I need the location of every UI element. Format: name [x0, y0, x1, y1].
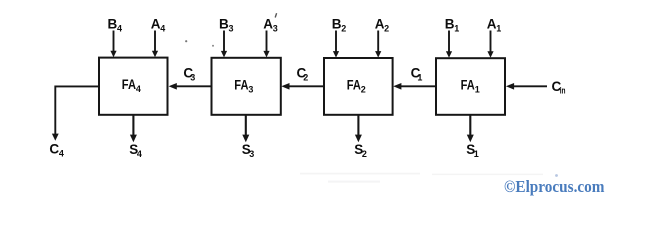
svg-text:FA: FA — [347, 78, 361, 93]
carry-out C4 wire with corner and arrow — [49, 86, 99, 158]
svg-text:2: 2 — [361, 85, 366, 95]
input B1 label and wire — [445, 17, 460, 58]
input A2 label and wire — [375, 17, 389, 58]
input B3 label and wire — [219, 17, 234, 58]
svg-text:4: 4 — [137, 149, 142, 159]
carry-in Cin wire with arrow into FA1 — [506, 79, 566, 96]
svg-text:B: B — [108, 17, 118, 32]
full adder FA3 — [212, 58, 281, 115]
svg-text:in: in — [560, 86, 566, 96]
input A4 label and wire — [151, 17, 165, 58]
carry wire C3 with arrow into FA4 — [169, 66, 212, 90]
svg-text:©Elprocus.com: ©Elprocus.com — [504, 177, 605, 196]
sum output S2 — [354, 115, 367, 159]
svg-text:3: 3 — [249, 149, 254, 159]
svg-text:3: 3 — [190, 73, 195, 83]
carry wire C2 with arrow into FA3 — [281, 66, 324, 90]
svg-text:1: 1 — [417, 73, 422, 83]
svg-text:FA: FA — [122, 77, 136, 92]
sum output S3 — [242, 115, 255, 159]
svg-text:FA: FA — [461, 78, 475, 93]
full adder FA4 — [99, 58, 168, 115]
input B4 label and wire — [108, 17, 123, 58]
svg-text:4: 4 — [117, 24, 122, 34]
input A1 label and wire — [487, 17, 501, 58]
sum output S4 — [129, 115, 142, 159]
svg-text:FA: FA — [234, 77, 248, 92]
svg-text:3: 3 — [248, 84, 253, 94]
svg-text:1: 1 — [454, 24, 459, 34]
svg-text:C: C — [49, 142, 59, 157]
carry wire C1 with arrow into FA2 — [393, 66, 436, 90]
svg-text:2: 2 — [303, 73, 308, 83]
svg-text:2: 2 — [384, 24, 389, 34]
svg-text:4: 4 — [59, 149, 64, 159]
svg-text:B: B — [219, 17, 229, 32]
full adder FA2 — [324, 58, 393, 115]
svg-text:4: 4 — [160, 24, 165, 34]
svg-text:3: 3 — [273, 24, 278, 34]
svg-text:1: 1 — [475, 85, 480, 95]
svg-text:B: B — [445, 17, 455, 32]
full adder FA1 — [436, 58, 505, 115]
svg-text:1: 1 — [496, 24, 501, 34]
svg-text:3: 3 — [229, 24, 234, 34]
svg-text:4: 4 — [136, 84, 141, 94]
input B2 label and wire — [332, 17, 347, 58]
sum output S1 — [466, 115, 479, 159]
input A3 label and wire — [263, 17, 277, 58]
svg-text:1: 1 — [474, 149, 479, 159]
svg-text:2: 2 — [341, 24, 346, 34]
svg-text:2: 2 — [362, 149, 367, 159]
svg-text:B: B — [332, 17, 342, 32]
